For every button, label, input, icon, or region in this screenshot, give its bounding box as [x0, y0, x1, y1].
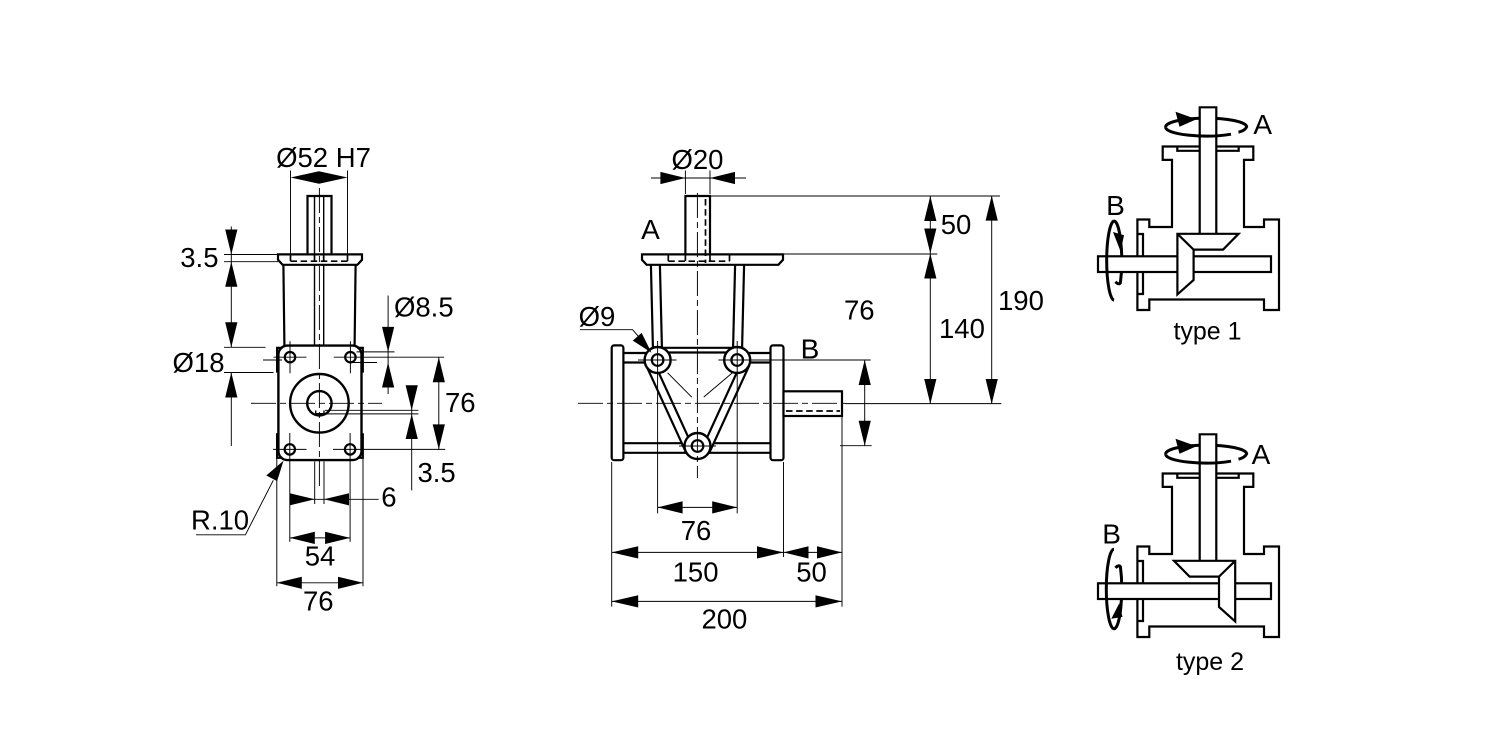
dim 6 (keyway width): extension lines	[315, 462, 324, 505]
label R.10 leader	[196, 480, 273, 535]
type2 rotation ellipse A front arc	[1166, 454, 1231, 463]
extension line from flange top	[783, 253, 937, 255]
svg-text:B: B	[1102, 519, 1121, 550]
type2 shaft A	[1200, 434, 1217, 561]
dim 76 (bottom): extension lines	[277, 458, 363, 586]
dim Ø8.5 dimension line	[387, 296, 389, 395]
svg-text:6: 6	[381, 482, 396, 513]
dim 50 arrows	[924, 196, 936, 221]
dim Ø20 arrows	[660, 172, 685, 184]
type1 rotation ellipse B back arc	[1114, 221, 1122, 284]
svg-text:Ø18: Ø18	[173, 347, 225, 378]
hidden line in shaft B (dashed)	[786, 410, 840, 412]
svg-text:76: 76	[844, 294, 875, 325]
rib edge thin V lines	[668, 373, 733, 397]
dim 3.5 keyway arrows	[406, 385, 418, 410]
dim Ø52: arrows	[291, 171, 320, 183]
bolt hole top-right	[345, 352, 355, 362]
boss bottom	[685, 433, 711, 459]
type2 left bearing plate	[1137, 561, 1143, 621]
svg-text:200: 200	[701, 604, 747, 635]
dim 190 dimension line	[991, 196, 993, 404]
type2 shaft B	[1098, 583, 1271, 599]
mounting plate (rounded square R10)	[278, 346, 361, 461]
dim 76 bottom arrows	[277, 577, 302, 589]
boss holes	[652, 354, 664, 366]
svg-text:76: 76	[303, 586, 334, 617]
dim 76 vertical arrows	[859, 360, 871, 385]
dim 150/50 dimension line	[612, 551, 842, 553]
top flange (middle view)	[642, 254, 783, 264]
dim Ø52: extension lines	[290, 171, 292, 255]
type1 rotation ellipse A front arc	[1166, 127, 1231, 136]
svg-text:54: 54	[305, 540, 336, 571]
label Ø9 leader	[580, 330, 641, 340]
dim 50/140 dimension line	[929, 196, 931, 404]
web tangent band left	[646, 365, 686, 451]
svg-text:50: 50	[796, 556, 827, 587]
dim 76 bottom dimension line	[277, 582, 363, 584]
extension line from shaft top	[710, 195, 1000, 197]
type1 shaft B	[1098, 256, 1271, 272]
rear plate corner tab top-left	[277, 348, 282, 373]
svg-text:A: A	[641, 214, 660, 245]
type1 rotation arrow B	[1113, 232, 1124, 252]
type1 gear internal edge	[1177, 234, 1193, 250]
type2 rotation arrow B	[1111, 603, 1122, 619]
dim 3.5 (flange): extension lines	[224, 255, 278, 262]
shaft bore edge lines	[314, 196, 316, 254]
web plate fill (hides rails behind)	[646, 348, 749, 452]
svg-text:type 1: type 1	[1173, 318, 1241, 346]
dim 54 arrows	[290, 532, 315, 544]
dim 6 arrows	[290, 493, 315, 505]
dim 50 bottom arrows	[784, 546, 809, 558]
hidden recess in flange (dashed)	[668, 255, 729, 262]
web tangent band right	[710, 365, 750, 451]
type2 rotation arrow A	[1176, 439, 1197, 454]
type2 gear body fill	[1174, 561, 1235, 622]
dim Ø8.5 arrows	[382, 327, 394, 352]
bolt hole bottom-left	[285, 444, 295, 454]
type1 bevel gear pair outline	[1177, 234, 1238, 295]
svg-text:3.5: 3.5	[180, 242, 218, 273]
dim 6 dimension line	[290, 498, 379, 500]
label R.10 arrowhead	[266, 461, 283, 481]
svg-text:3.5: 3.5	[418, 457, 456, 488]
rear plate corner tab top-right	[357, 348, 362, 373]
boss upper-left	[645, 347, 671, 373]
hidden bore in shaft A (dashed)	[705, 199, 707, 263]
dim 76 (vertical right): extension stub	[840, 445, 872, 447]
center line vertical (left view)	[318, 188, 320, 486]
dim 76 bottom arrows	[658, 501, 683, 513]
center line B axis (horizontal)	[578, 402, 845, 404]
output shaft B	[784, 391, 843, 416]
top flange (left view)	[278, 254, 362, 264]
dim Ø18 arrows	[225, 322, 237, 347]
type2 bevel gear pair outline	[1174, 561, 1235, 622]
svg-text:B: B	[801, 334, 820, 365]
svg-text:140: 140	[939, 313, 985, 344]
dim Ø18: extension lines	[224, 347, 274, 372]
dim 76 (right side): dimension line	[438, 357, 440, 449]
svg-text:76: 76	[681, 515, 712, 546]
type1 flange recess	[1177, 147, 1238, 151]
svg-text:Ø9: Ø9	[579, 301, 616, 332]
type2 rotation ellipse A back arc	[1166, 445, 1247, 459]
dim 54: extension lines	[290, 433, 350, 542]
dim 190 arrows	[986, 196, 998, 221]
type2 flange recess	[1177, 474, 1238, 478]
bolt hole bottom-right	[345, 444, 355, 454]
type1 rotation arrow A	[1176, 112, 1197, 127]
type1 left bearing plate	[1137, 234, 1143, 294]
bolt hole top-left	[285, 352, 295, 362]
type2 housing outline	[1137, 474, 1279, 638]
type2 gear internal edge	[1219, 561, 1235, 577]
web top edges between bosses	[658, 347, 738, 349]
body rails (horizontal walls)	[623, 353, 770, 453]
dim 3.5 arrows	[225, 230, 237, 255]
svg-text:150: 150	[673, 556, 719, 587]
bore lines through bell	[314, 265, 316, 346]
extension lines for 150/50/200	[612, 417, 842, 607]
rear plate corner tab bottom-left	[277, 433, 282, 458]
dim Ø20: extension lines	[685, 171, 710, 195]
dim 3.5 (keyway): extension lines	[316, 410, 418, 414]
dim Ø8.5: extension lines	[353, 352, 395, 363]
boss center lines	[638, 341, 871, 513]
type1 rotation ellipse A back arc	[1166, 118, 1247, 132]
dim 140 arrows	[924, 254, 936, 279]
dim 76 (bottom middle) dimension line	[658, 506, 738, 508]
dim 200 dimension line	[612, 600, 842, 602]
svg-text:190: 190	[998, 285, 1044, 316]
svg-text:Ø52 H7: Ø52 H7	[276, 142, 371, 173]
keyway	[316, 411, 324, 414]
hidden recess in flange (dashed)	[291, 255, 348, 262]
type2 rotation ellipse B back arc	[1114, 566, 1122, 629]
svg-text:B: B	[1106, 190, 1125, 221]
svg-text:50: 50	[941, 209, 972, 240]
dim 76 vertical dimension line	[864, 360, 866, 446]
svg-text:76: 76	[445, 387, 476, 418]
input shaft (top, left view)	[308, 196, 332, 254]
dim 150 arrows	[612, 546, 639, 558]
type1 shaft A	[1200, 107, 1217, 234]
center line A axis (vertical)	[696, 193, 698, 478]
label Ø9 arrowhead	[633, 333, 652, 353]
bore circle Ø18	[307, 391, 331, 415]
right side flange (middle view)	[771, 345, 784, 460]
type1 rotation ellipse B front arc	[1107, 221, 1114, 300]
svg-text:Ø20: Ø20	[672, 144, 724, 175]
dim 200 arrows	[612, 595, 639, 607]
dim 76 arrows	[433, 357, 445, 382]
dim 54 dimension line	[290, 537, 350, 539]
dim 3.5 keyway dimension line	[411, 386, 413, 490]
svg-text:type 2: type 2	[1176, 648, 1244, 676]
rear plate corner tab bottom-right	[357, 433, 362, 458]
dim Ø20 dimension line	[651, 177, 746, 179]
left side flange (middle view)	[612, 345, 624, 460]
svg-text:A: A	[1253, 109, 1272, 140]
svg-text:Ø8.5: Ø8.5	[394, 292, 454, 323]
bell housing walls (left view)	[283, 265, 284, 346]
hub boss circle	[290, 374, 349, 433]
type1 gear body fill	[1177, 234, 1238, 295]
input shaft A (vertical)	[685, 196, 710, 254]
type1 housing outline	[1137, 147, 1279, 311]
center line horizontal (left view)	[251, 402, 382, 404]
dim 3.5/Ø18 vertical dimension line	[230, 227, 232, 447]
bell housing walls (middle view)	[651, 265, 653, 347]
svg-text:A: A	[1252, 439, 1271, 470]
hole crosshairs	[263, 341, 445, 449]
boss upper-right	[724, 347, 750, 373]
type2 rotation ellipse B front arc	[1106, 549, 1114, 628]
svg-text:R.10: R.10	[191, 505, 249, 536]
